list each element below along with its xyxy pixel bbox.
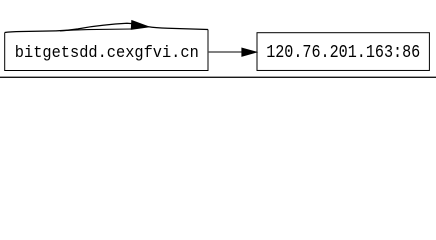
- svg-text:bitgetsdd.cexgfvi.cn: bitgetsdd.cexgfvi.cn: [15, 44, 199, 63]
- svg-text:120.76.201.163:86: 120.76.201.163:86: [266, 43, 420, 63]
